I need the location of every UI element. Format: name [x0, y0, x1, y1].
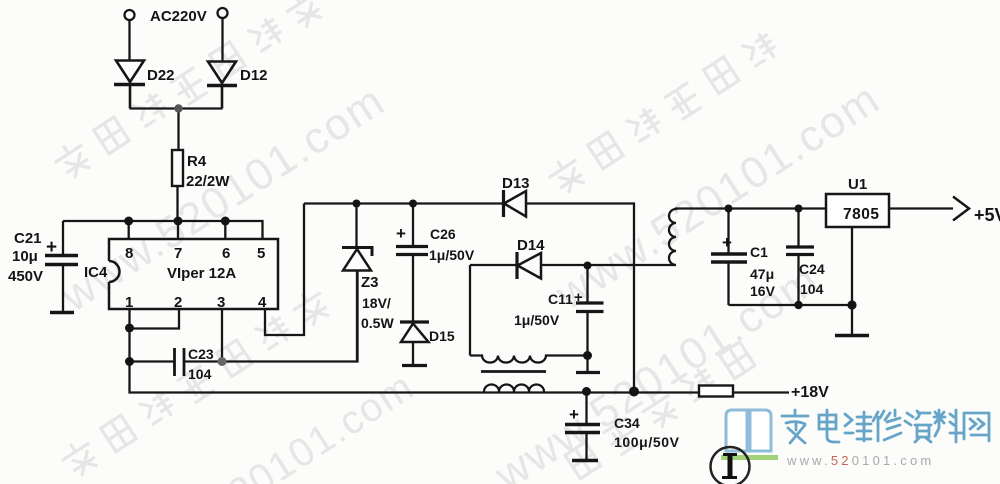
svg-text:+: +	[396, 224, 406, 243]
svg-text:4: 4	[258, 294, 267, 311]
svg-text:R4: R4	[187, 153, 207, 170]
svg-text:7: 7	[174, 245, 182, 262]
svg-text:D15: D15	[429, 328, 455, 344]
svg-text:C34: C34	[614, 415, 640, 431]
svg-text:5: 5	[257, 245, 265, 262]
svg-text:U1: U1	[848, 176, 867, 193]
svg-text:D14: D14	[517, 237, 545, 254]
svg-text:VIper 12A: VIper 12A	[167, 265, 236, 282]
svg-text:18V/: 18V/	[362, 295, 391, 311]
svg-text:104: 104	[188, 366, 212, 382]
svg-text:C11: C11	[548, 291, 573, 307]
svg-text:IC4: IC4	[84, 264, 108, 281]
svg-text:100μ/50V: 100μ/50V	[614, 434, 680, 450]
svg-text:D12: D12	[240, 67, 268, 84]
svg-text:C26: C26	[430, 226, 456, 242]
svg-text:0.5W: 0.5W	[361, 315, 394, 331]
svg-text:7805: 7805	[843, 206, 879, 223]
svg-text:10μ: 10μ	[12, 248, 38, 265]
svg-text:www.520101.com: www.520101.com	[115, 364, 422, 484]
svg-text:C21: C21	[14, 230, 42, 247]
svg-text:C23: C23	[188, 346, 214, 362]
svg-text:+: +	[574, 289, 583, 306]
svg-text:47μ: 47μ	[750, 266, 774, 282]
svg-text:22/2W: 22/2W	[186, 173, 230, 190]
svg-text:8: 8	[125, 245, 133, 262]
svg-text:+18V: +18V	[791, 384, 829, 401]
svg-text:C1: C1	[750, 244, 768, 260]
svg-text:1μ/50V: 1μ/50V	[429, 247, 475, 263]
svg-text:D22: D22	[147, 67, 175, 84]
svg-text:6: 6	[222, 245, 230, 262]
svg-text:1: 1	[125, 294, 133, 311]
svg-text:+: +	[722, 233, 732, 252]
svg-text:C24: C24	[799, 261, 825, 277]
svg-text:Z3: Z3	[361, 274, 379, 291]
svg-text:2: 2	[174, 294, 182, 311]
svg-text:+5V: +5V	[974, 205, 1000, 225]
svg-text:3: 3	[217, 294, 225, 311]
svg-text:104: 104	[800, 281, 824, 297]
svg-text:450V: 450V	[8, 268, 43, 285]
svg-text:D13: D13	[502, 175, 530, 192]
svg-text:+: +	[46, 237, 57, 258]
svg-text:16V: 16V	[750, 283, 776, 299]
svg-text:AC220V: AC220V	[150, 8, 207, 25]
svg-text:www.520101.com: www.520101.com	[786, 453, 934, 468]
svg-text:+: +	[569, 405, 579, 424]
svg-text:1μ/50V: 1μ/50V	[514, 312, 560, 328]
svg-text:www.520101.com: www.520101.com	[52, 76, 394, 322]
